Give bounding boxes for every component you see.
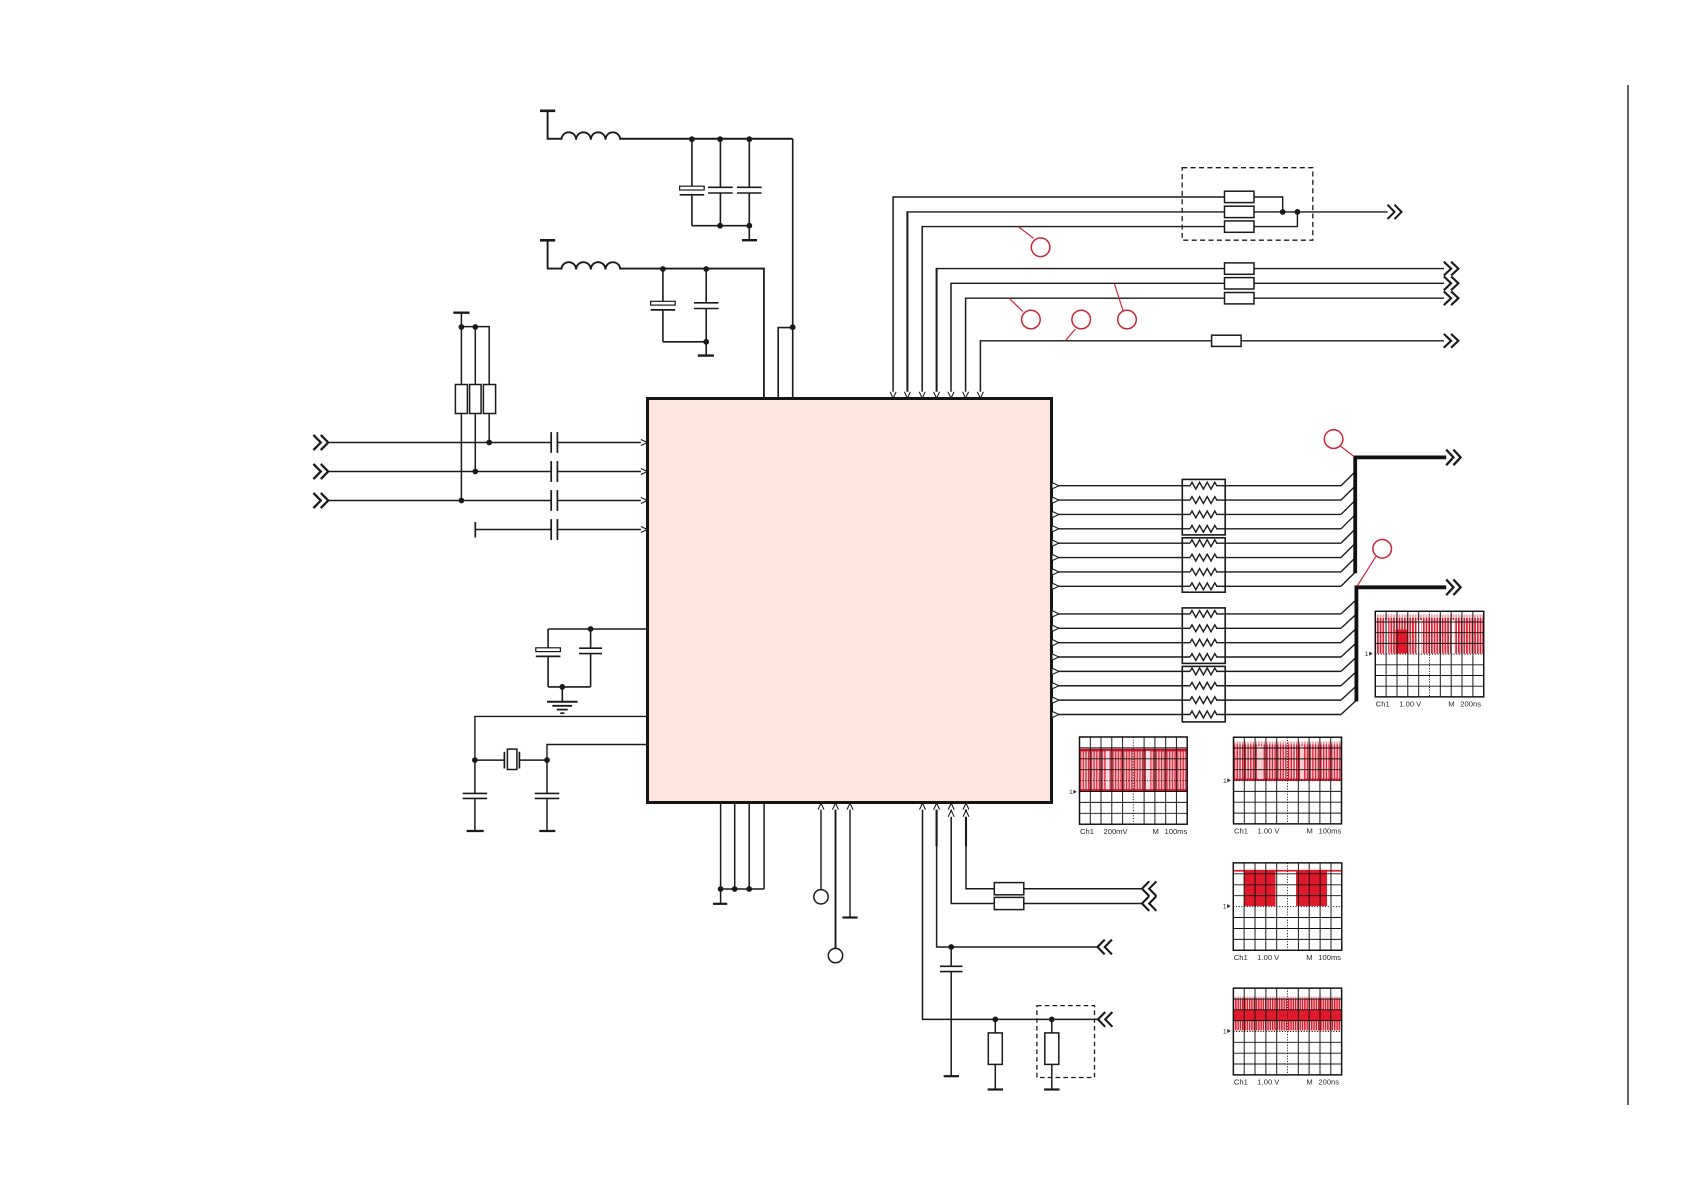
power tap T-bar 2: [540, 239, 555, 242]
wire out1-8: [1053, 585, 1191, 587]
wire out1-4: [1053, 528, 1191, 530]
resistor RE1: [994, 1019, 996, 1033]
callout circle A: [1018, 227, 1033, 239]
pin arrow: [1053, 711, 1059, 717]
ground: [720, 889, 722, 903]
wire: [1254, 268, 1444, 270]
junction: [459, 324, 465, 330]
capacitor C9: [546, 760, 548, 793]
pin arrow: [847, 803, 853, 809]
pin arrow: [963, 392, 969, 398]
pin arrow: [1053, 569, 1059, 575]
junction: [472, 757, 478, 763]
pin arrow: [1053, 611, 1059, 617]
wire: [460, 414, 462, 501]
wire pin D: [966, 805, 994, 889]
resistor network RN1: [1182, 479, 1225, 535]
resistor RE2: [1051, 1019, 1053, 1033]
input chevron: [1098, 1012, 1105, 1027]
wire: [663, 341, 706, 343]
wire: [328, 442, 551, 444]
svg-text:M: M: [1448, 700, 1454, 709]
pin arrow: [641, 527, 647, 533]
junction: [588, 626, 594, 632]
wire OSC B: [547, 745, 648, 761]
junction: [790, 324, 796, 330]
svg-text:100ms: 100ms: [1165, 827, 1188, 836]
wire: [1241, 340, 1444, 342]
capacitor C6: [547, 629, 549, 648]
ground: [944, 1075, 959, 1077]
capacitor C10: [950, 947, 952, 966]
wire bottom pin 3: [748, 803, 750, 890]
terminal circle TP2: [828, 948, 842, 962]
svg-text:M: M: [1153, 827, 1159, 836]
capacitor C2: [719, 140, 721, 188]
junction: [746, 886, 752, 892]
resistor RB2: [1225, 278, 1255, 289]
wire: [937, 268, 1225, 270]
wire: [475, 759, 505, 761]
svg-text:100ms: 100ms: [1318, 953, 1341, 962]
pin arrow: [641, 469, 647, 475]
output chevron: [1444, 262, 1451, 276]
pin arrow: [1053, 683, 1059, 689]
wire: [1024, 903, 1142, 905]
wire out2-5: [1053, 670, 1191, 672]
wire out1-1: [1053, 485, 1191, 487]
wire: [1254, 211, 1388, 213]
svg-text:1: 1: [1069, 789, 1073, 796]
wire top pin 2: [906, 211, 908, 392]
pin arrow: [1053, 625, 1059, 631]
input chevron: [1142, 881, 1149, 896]
wire: [849, 805, 851, 918]
bus thick line 2: [1356, 587, 1446, 701]
svg-text:200ns: 200ns: [1460, 700, 1481, 709]
svg-text:1.00 V: 1.00 V: [1399, 700, 1422, 709]
resistor RA1: [1225, 191, 1255, 202]
callout circle D: [1115, 284, 1124, 311]
wire: [1254, 297, 1444, 299]
wire: [461, 327, 489, 385]
wire: [1254, 282, 1444, 284]
svg-text:1.00 V: 1.00 V: [1258, 827, 1281, 836]
terminal circle TP1: [814, 890, 828, 904]
wire out2-2: [1053, 627, 1191, 629]
pin arrow: [920, 803, 926, 809]
wire: [778, 328, 793, 399]
junction: [718, 886, 724, 892]
junction: [717, 136, 723, 142]
capacitor C4: [662, 270, 664, 302]
pin arrow: [1053, 583, 1059, 589]
pin arrow: [890, 392, 896, 398]
wire out2-1: [1053, 613, 1191, 615]
wire: [557, 442, 641, 444]
wire: [692, 225, 749, 227]
output chevron: [1388, 205, 1395, 219]
input chevron 3: [313, 493, 320, 508]
inductor L1: [561, 132, 620, 139]
resistor RA2: [1225, 206, 1255, 217]
capacitor C11 series: [550, 461, 552, 482]
junction: [1049, 1017, 1055, 1023]
wire: [557, 471, 641, 473]
wire test point 1: [820, 805, 822, 890]
wire: [548, 268, 562, 270]
resistor R3: [483, 385, 495, 414]
resistor RA3: [1225, 221, 1255, 232]
wire: [1254, 197, 1283, 212]
bus chevron 2: [1446, 580, 1453, 596]
svg-text:1: 1: [1223, 904, 1227, 911]
capacitor C10 series: [550, 432, 552, 453]
svg-text:M: M: [1307, 827, 1313, 836]
wire out1-6: [1053, 557, 1191, 559]
wire: [328, 471, 551, 473]
wire: [557, 529, 641, 531]
wire bottom pin 2: [734, 803, 736, 890]
junction: [992, 1017, 998, 1023]
wire out1-5: [1053, 542, 1191, 544]
resistor R1: [455, 385, 467, 414]
svg-text:Ch1: Ch1: [1234, 953, 1248, 962]
bus chevron 1: [1446, 450, 1453, 466]
wire: [474, 327, 476, 384]
resistor RB3: [1225, 293, 1255, 304]
pin arrow: [948, 392, 954, 398]
junction: [559, 684, 565, 690]
svg-text:200ns: 200ns: [1318, 1078, 1339, 1087]
wire bottom pin 1: [720, 803, 722, 890]
output chevron: [1444, 276, 1451, 290]
wire VDD2 net: [762, 269, 765, 399]
ground: [988, 1088, 1003, 1090]
svg-text:1.00 V: 1.00 V: [1257, 953, 1280, 962]
wire: [922, 226, 1224, 228]
resistor network RN2: [1182, 538, 1225, 592]
oscilloscope screenshot 2: [1080, 737, 1188, 824]
capacitor C3: [748, 140, 750, 188]
wire: [548, 628, 647, 630]
junction: [472, 469, 478, 475]
dashed box: [1182, 168, 1313, 241]
callout circle E: [1341, 446, 1354, 456]
wire out1-3: [1053, 513, 1191, 515]
wire: [620, 138, 793, 140]
wire out1-7: [1053, 571, 1191, 573]
wire: [721, 888, 765, 890]
pin arrow: [818, 803, 824, 809]
pin arrow: [1053, 511, 1059, 517]
wire out1-2: [1053, 499, 1191, 501]
junction: [660, 266, 666, 272]
ground: [539, 830, 555, 832]
pin arrow: [934, 803, 940, 809]
junction: [948, 944, 954, 950]
resistor RD1: [994, 883, 1024, 895]
wire: [548, 686, 591, 688]
callout circle F: [1357, 557, 1376, 587]
pin arrow double: [963, 803, 969, 809]
pin arrow: [904, 392, 910, 398]
pin arrow: [833, 803, 839, 809]
wire out2-7: [1053, 699, 1191, 701]
svg-text:1: 1: [1365, 651, 1369, 658]
ground: [1044, 1088, 1059, 1090]
wire out2-3: [1053, 642, 1191, 644]
svg-text:1: 1: [1223, 778, 1227, 785]
resistor RD2: [994, 897, 1024, 909]
resistor RC1: [1212, 335, 1242, 346]
wire pin C: [951, 805, 994, 904]
capacitor C13 series: [550, 519, 552, 540]
crystal Y1: [503, 752, 505, 769]
dashed box 2: [1037, 1006, 1095, 1078]
input chevron 1: [313, 435, 320, 450]
junction: [689, 136, 695, 142]
junction: [1295, 209, 1301, 215]
wire top pin 1: [892, 196, 894, 392]
pin arrow: [1053, 654, 1059, 660]
bus thick line 1: [1355, 457, 1446, 573]
svg-text:Ch1: Ch1: [1234, 827, 1248, 836]
oscilloscope screenshot 1: [1375, 611, 1483, 697]
input chevron: [1142, 896, 1149, 911]
wire out2-8: [1053, 713, 1191, 715]
junction: [472, 324, 478, 330]
junction: [717, 223, 723, 229]
wire VDD net: [792, 139, 794, 399]
wire top pin 3: [921, 226, 923, 392]
ground: [467, 830, 484, 832]
junction: [732, 886, 738, 892]
wire: [557, 500, 641, 502]
inductor L2: [561, 262, 620, 269]
pin arrow: [641, 440, 647, 446]
power tap T-bar 3: [453, 312, 469, 314]
svg-text:M: M: [1306, 1078, 1312, 1087]
wire: [1254, 212, 1297, 227]
wire: [980, 340, 1211, 342]
pin arrow: [1053, 497, 1059, 503]
output chevron: [1444, 334, 1451, 348]
pin arrow: [1053, 483, 1059, 489]
IC U1: [648, 399, 1052, 803]
wire: [1024, 888, 1142, 890]
junction: [703, 339, 709, 345]
wire out2-4: [1053, 656, 1191, 658]
wire: [907, 211, 1224, 213]
wire: [893, 196, 1224, 198]
capacitor C8: [474, 760, 476, 793]
svg-text:200mV: 200mV: [1104, 827, 1129, 836]
capacitor C12 series: [550, 490, 552, 511]
wire OSC A: [475, 716, 648, 760]
svg-text:1.00 V: 1.00 V: [1257, 1078, 1280, 1087]
input chevron 2: [313, 464, 320, 479]
wire: [488, 414, 490, 443]
junction: [486, 440, 492, 446]
wire out2-6: [1053, 685, 1191, 687]
wire bottom pin 4: [763, 803, 765, 890]
svg-text:Ch1: Ch1: [1234, 1078, 1248, 1087]
junction: [746, 223, 752, 229]
resistor R2: [470, 385, 482, 414]
ground: [748, 226, 750, 241]
wire: [328, 500, 551, 502]
wire pin A: [923, 805, 1099, 1020]
wire: [951, 282, 1225, 284]
junction: [703, 266, 709, 272]
svg-text:1: 1: [1223, 1028, 1227, 1035]
capacitor C7: [590, 629, 592, 648]
pin arrow: [1053, 668, 1059, 674]
stub terminal: [474, 522, 476, 538]
capacitor C5: [705, 270, 707, 303]
callout circle B: [1009, 298, 1023, 311]
svg-text:Ch1: Ch1: [1080, 827, 1094, 836]
power tap T-bar 1: [540, 110, 555, 113]
oscilloscope screenshot 5: [1233, 988, 1341, 1075]
junction: [544, 757, 550, 763]
wire: [474, 414, 476, 472]
svg-text:Ch1: Ch1: [1376, 700, 1390, 709]
wire pin B: [937, 805, 1098, 948]
wire top pin 6: [965, 298, 967, 393]
svg-text:100ms: 100ms: [1319, 827, 1342, 836]
callout circle C: [1065, 329, 1075, 341]
wire top pin 4: [936, 268, 938, 392]
pin arrow: [1053, 540, 1059, 546]
resistor network RN4: [1182, 666, 1225, 722]
page border line: [1627, 85, 1629, 1105]
output chevron: [1444, 291, 1451, 305]
pin arrow: [1053, 555, 1059, 561]
wire: [548, 138, 562, 140]
pin arrow: [641, 498, 647, 504]
junction: [459, 498, 465, 504]
pin arrow: [1053, 640, 1059, 646]
oscilloscope screenshot 3: [1234, 737, 1342, 824]
oscilloscope screenshot 4: [1233, 863, 1342, 950]
wire: [966, 297, 1225, 299]
pin arrow: [1053, 526, 1059, 532]
input chevron: [1098, 940, 1105, 955]
wire: [475, 529, 551, 531]
junction: [1280, 209, 1286, 215]
pin arrow: [934, 392, 940, 398]
pin arrow: [1053, 697, 1059, 703]
pin arrow double: [948, 803, 954, 809]
resistor RB1: [1225, 263, 1255, 274]
wire: [519, 759, 547, 761]
pin arrow: [919, 392, 925, 398]
ground: [705, 342, 707, 355]
ground: [842, 916, 857, 918]
junction: [746, 136, 752, 142]
pin arrow: [977, 392, 983, 398]
wire: [460, 327, 462, 384]
svg-text:M: M: [1306, 953, 1312, 962]
wire: [620, 268, 764, 270]
wire top pin 5: [950, 283, 952, 393]
resistor network RN3: [1182, 608, 1225, 664]
wire test point 2: [835, 805, 837, 949]
earth ground: [561, 687, 563, 702]
capacitor C1: [691, 140, 693, 187]
wire top pin 7: [979, 340, 981, 392]
